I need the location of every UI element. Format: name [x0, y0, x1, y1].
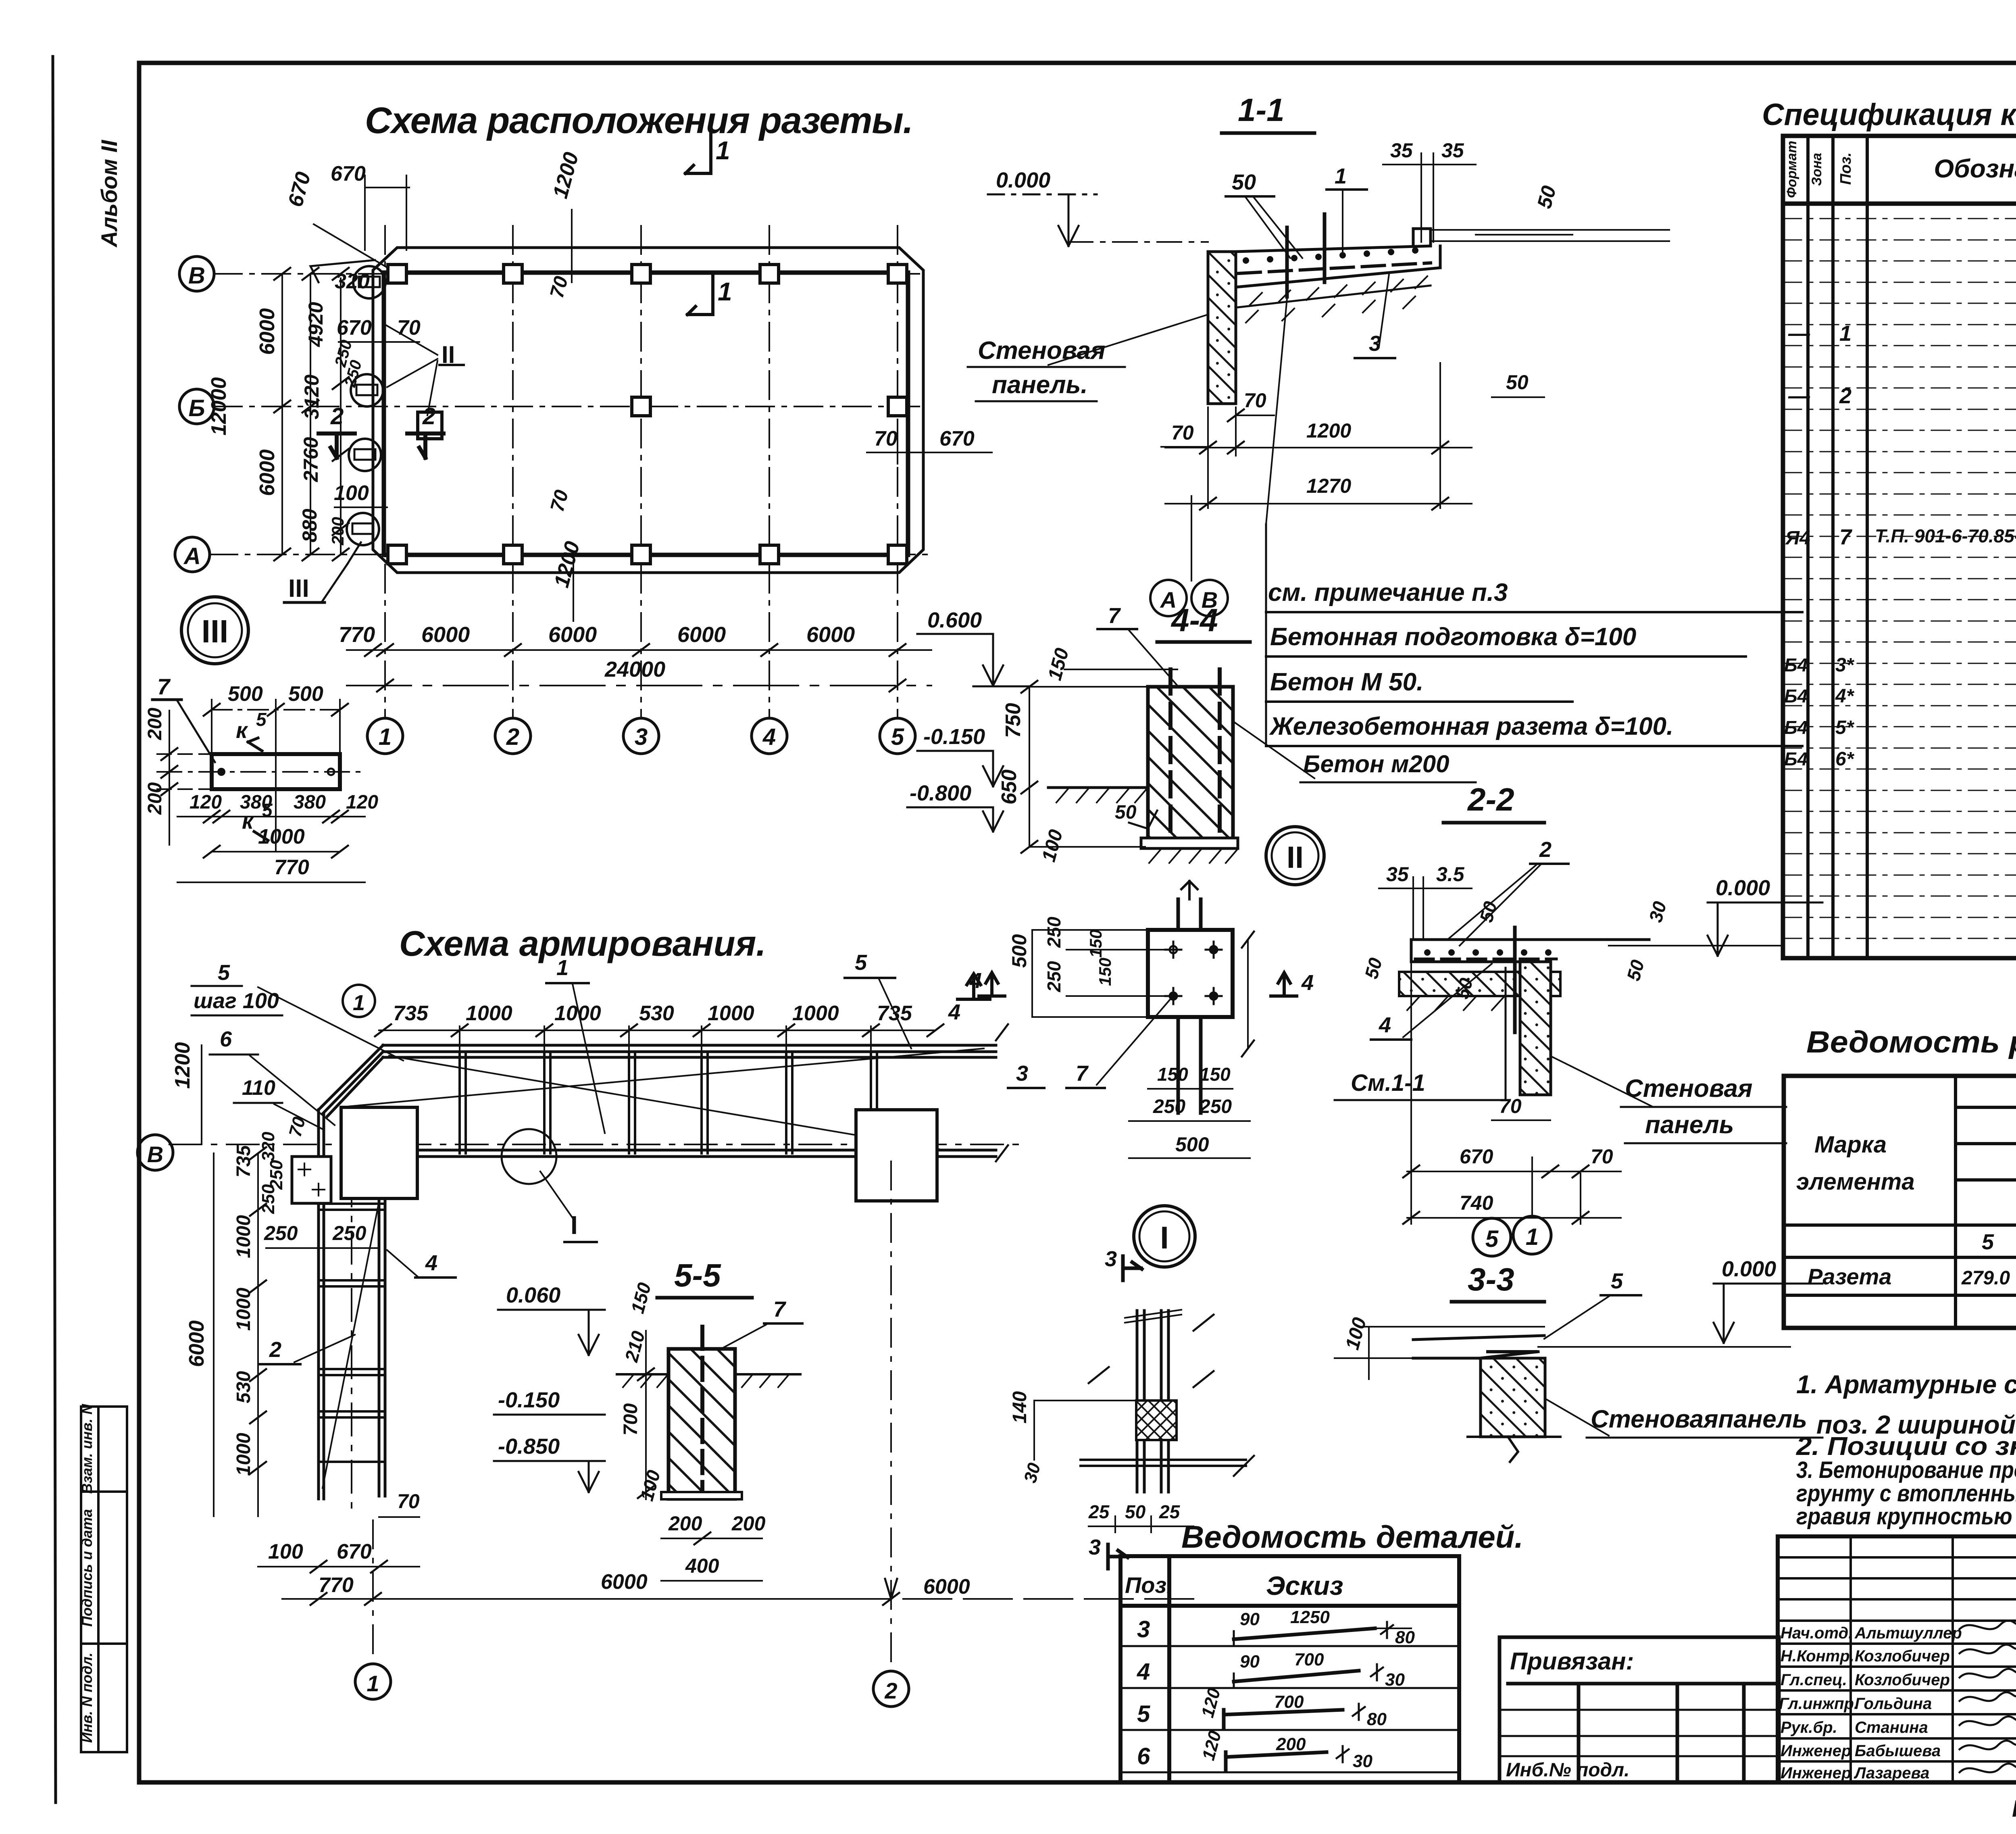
- beam axis dashed: [169, 1144, 1024, 1145]
- svg-text:6*: 6*: [1835, 748, 1855, 770]
- svg-text:Обозначение: Обозначение: [1934, 154, 2016, 183]
- svg-text:500: 500: [228, 682, 263, 706]
- svg-text:Эскиз: Эскиз: [1266, 1571, 1343, 1601]
- svg-text:Привязан:: Привязан:: [1510, 1648, 1634, 1675]
- svg-text:Бетон м200: Бетон м200: [1303, 750, 1449, 777]
- svg-text:6000: 6000: [185, 1320, 208, 1367]
- svg-text:-0.800: -0.800: [910, 781, 971, 805]
- svg-text:Поз.: Поз.: [1125, 1572, 1173, 1598]
- svg-text:см. примечание п.3: см. примечание п.3: [1268, 579, 1508, 606]
- binding edge line: [53, 56, 56, 1803]
- grid axis 5: [897, 226, 898, 718]
- corner plate right: [856, 1110, 937, 1201]
- svg-text:5: 5: [1485, 1226, 1499, 1252]
- axis circles А В of section: [1191, 496, 1192, 581]
- grid axis 2: [512, 226, 514, 718]
- svg-text:735: 735: [233, 1145, 254, 1178]
- vertical bars through slab: [1285, 227, 1289, 297]
- svg-text:3: 3: [635, 724, 648, 750]
- horizontal line through: [1081, 1459, 1246, 1461]
- svg-text:I: I: [1160, 1220, 1169, 1255]
- svg-text:2: 2: [422, 403, 435, 429]
- svg-text:Козлобичер: Козлобичер: [1855, 1671, 1950, 1689]
- break mark right of beam: [996, 1024, 1008, 1161]
- axis circle 1 top: [343, 985, 375, 1017]
- signatures: [1960, 1621, 2016, 1772]
- svg-text:4: 4: [762, 724, 776, 750]
- svg-text:70: 70: [1499, 1095, 1522, 1117]
- svg-text:24000: 24000: [604, 657, 665, 681]
- svg-text:2: 2: [884, 1678, 897, 1703]
- svg-text:770: 770: [274, 856, 309, 879]
- svg-text:III: III: [202, 613, 229, 649]
- svg-text:Б4: Б4: [1784, 654, 1808, 675]
- grid axis 3: [640, 226, 642, 718]
- подготовка strip under slab: [1238, 286, 1431, 307]
- top rebar dots 2-2: [1424, 949, 1552, 956]
- detail circle on beam: [502, 1129, 556, 1184]
- svg-text:4: 4: [1379, 1013, 1391, 1037]
- svg-text:Ведомость расхода стали на: Ведомость расхода стали на элемент кг.: [1806, 1025, 2016, 1059]
- grid axis Б: [214, 406, 927, 407]
- svg-text:279.0: 279.0: [1961, 1267, 2010, 1289]
- svg-text:1: 1: [556, 956, 569, 980]
- wall panel right (vertical, hatched): [1520, 962, 1551, 1095]
- break marks right of plate: [1242, 932, 1254, 1057]
- grid axis А: [209, 554, 927, 555]
- plate II rect: [1148, 930, 1233, 1017]
- svg-text:5*: 5*: [1835, 717, 1855, 738]
- small bolt plate left: [292, 1157, 331, 1203]
- detail circle III: [181, 597, 248, 664]
- svg-text:6000: 6000: [806, 623, 855, 647]
- svg-text:110: 110: [242, 1076, 275, 1100]
- pins above plate: [1178, 881, 1201, 930]
- svg-text:35: 35: [1390, 139, 1413, 162]
- svg-text:25: 25: [1159, 1501, 1181, 1522]
- svg-text:Н.Контр.: Н.Контр.: [1781, 1647, 1854, 1665]
- svg-text:4: 4: [1137, 1659, 1150, 1685]
- svg-text:30: 30: [1385, 1670, 1405, 1690]
- columns top row: [388, 265, 907, 283]
- svg-text:250: 250: [332, 1222, 367, 1244]
- svg-text:1: 1: [716, 136, 730, 165]
- beam posts (verticals): [460, 1052, 877, 1153]
- svg-text:70: 70: [397, 316, 421, 340]
- svg-text:1000: 1000: [708, 1002, 754, 1025]
- подготовка strip 2-2: [1399, 972, 1560, 996]
- slab dashed rebar 1-1: [1238, 263, 1431, 273]
- svg-text:1000: 1000: [466, 1002, 512, 1025]
- svg-text:1200: 1200: [171, 1042, 194, 1089]
- grid axis В: [214, 273, 927, 275]
- svg-text:7: 7: [773, 1297, 787, 1321]
- leader from notes to slab: [1265, 524, 1267, 746]
- spec row separator lines: [1783, 219, 2016, 938]
- svg-text:50: 50: [1125, 1501, 1146, 1522]
- svg-text:7: 7: [1076, 1061, 1089, 1086]
- svg-text:150: 150: [1095, 958, 1114, 986]
- svg-text:0.000: 0.000: [1716, 876, 1770, 900]
- columns middle row: [418, 397, 907, 439]
- svg-text:Б4: Б4: [1784, 686, 1808, 707]
- svg-text:Инженер: Инженер: [1781, 1742, 1851, 1760]
- svg-text:Спецификация к схеме распо: Спецификация к схеме расположения разеты…: [1762, 98, 2016, 132]
- svg-text:50: 50: [1232, 170, 1256, 194]
- svg-text:Марка: Марка: [1814, 1132, 1887, 1158]
- svg-text:-0.150: -0.150: [498, 1388, 560, 1412]
- columns bottom row: [388, 545, 907, 564]
- axis circle В: [179, 256, 214, 291]
- svg-text:35: 35: [1386, 863, 1409, 886]
- svg-text:0.000: 0.000: [996, 168, 1050, 192]
- svg-text:670: 670: [331, 162, 366, 185]
- svg-text:1: 1: [1839, 321, 1851, 346]
- svg-text:Гольдина: Гольдина: [1855, 1695, 1932, 1713]
- svg-text:5: 5: [855, 950, 867, 975]
- detail circles 5 1: [1473, 1218, 1511, 1256]
- steel table frame: [1784, 1076, 2016, 1328]
- svg-text:150: 150: [1086, 930, 1105, 958]
- svg-text:5: 5: [256, 709, 267, 730]
- svg-text:4920: 4920: [304, 302, 327, 347]
- svg-text:250: 250: [1199, 1096, 1232, 1117]
- svg-text:150: 150: [1157, 1064, 1188, 1085]
- svg-text:Я4: Я4: [1785, 527, 1810, 549]
- svg-text:90: 90: [1240, 1652, 1260, 1671]
- svg-text:2. Позиции со знаком * см.: 2. Позиции со знаком * см. Ведомость дет…: [1796, 1432, 2016, 1461]
- svg-text:1-1: 1-1: [1238, 92, 1285, 128]
- beam strip horizontal: [383, 1045, 996, 1157]
- svg-text:70: 70: [1171, 421, 1194, 444]
- margin stamp strip: [81, 1407, 127, 1752]
- svg-text:6000: 6000: [548, 623, 597, 647]
- wall 3-3 (hatched with blobs): [1481, 1358, 1545, 1437]
- personnel rows: [1779, 1624, 1962, 1782]
- corner diagonal to vertical strip: [319, 1045, 383, 1116]
- anchors below plate: [1178, 1017, 1201, 1113]
- slab 3-3: [1413, 1336, 1544, 1358]
- svg-text:700: 700: [1274, 1692, 1304, 1712]
- details table frame: [1120, 1556, 1459, 1782]
- svg-text:3.5: 3.5: [1436, 863, 1465, 886]
- footing of 4-4: [1141, 838, 1238, 848]
- svg-text:12000: 12000: [207, 377, 231, 436]
- svg-text:7: 7: [1839, 525, 1853, 549]
- diagonal leader in vertical strip: [323, 1202, 379, 1488]
- axis circle 2 bottom: [890, 1161, 892, 1669]
- axis circle А: [175, 537, 210, 572]
- svg-text:Рук.бр.: Рук.бр.: [1781, 1719, 1837, 1736]
- svg-text:6000: 6000: [677, 623, 726, 647]
- svg-text:См.1-1: См.1-1: [1351, 1070, 1425, 1096]
- svg-text:3: 3: [1137, 1616, 1150, 1642]
- break marks: [1125, 1310, 1181, 1323]
- svg-text:Станина: Станина: [1855, 1719, 1928, 1736]
- svg-text:4: 4: [948, 1000, 960, 1024]
- svg-text:140: 140: [1009, 1391, 1031, 1423]
- svg-text:-0.850: -0.850: [498, 1434, 560, 1459]
- svg-text:7: 7: [1108, 604, 1121, 628]
- svg-text:Б: Б: [188, 395, 205, 421]
- svg-text:80: 80: [1367, 1709, 1387, 1729]
- slab section drawing 1-1: [1208, 229, 1440, 287]
- svg-text:700: 700: [1294, 1650, 1324, 1669]
- svg-text:3: 3: [1105, 1247, 1117, 1271]
- svg-text:250: 250: [1153, 1096, 1185, 1117]
- rebar dashed bars: [1168, 669, 1173, 837]
- vertical bars of detail I: [1137, 1311, 1168, 1492]
- svg-text:В: В: [147, 1142, 163, 1167]
- svg-text:3. Бетонирование производить: 3. Бетонирование производить по умеренно…: [1796, 1457, 2016, 1483]
- svg-text:—: —: [1788, 384, 1810, 408]
- svg-text:770: 770: [319, 1573, 354, 1597]
- svg-text:650: 650: [998, 769, 1021, 804]
- svg-text:Бетон М 50.: Бетон М 50.: [1270, 668, 1423, 696]
- svg-text:2: 2: [1839, 384, 1851, 408]
- svg-text:5: 5: [1137, 1701, 1150, 1727]
- svg-text:0.600: 0.600: [927, 608, 982, 632]
- axis circle 1 bottom: [372, 1520, 374, 1663]
- svg-text:250: 250: [258, 1184, 278, 1214]
- axis bottom circles 1-5: [367, 718, 915, 754]
- svg-text:2: 2: [269, 1338, 281, 1362]
- svg-text:В: В: [188, 263, 205, 289]
- svg-text:250: 250: [1043, 961, 1064, 992]
- svg-text:3: 3: [1089, 1535, 1101, 1559]
- svg-text:элемента: элемента: [1796, 1169, 1915, 1195]
- svg-text:Бабышева: Бабышева: [1855, 1742, 1941, 1760]
- svg-text:1200: 1200: [1306, 419, 1351, 442]
- svg-text:200: 200: [144, 782, 166, 815]
- svg-text:Альбом II: Альбом II: [96, 140, 122, 248]
- long diagonals: [343, 1048, 984, 1107]
- svg-text:1: 1: [1335, 164, 1347, 188]
- svg-text:панель.: панель.: [992, 371, 1088, 399]
- svg-text:320: 320: [258, 1132, 278, 1161]
- svg-text:II: II: [1287, 840, 1304, 875]
- svg-text:Стеноваяпанель: Стеноваяпанель: [1591, 1405, 1807, 1433]
- svg-text:380: 380: [294, 792, 326, 813]
- svg-text:100: 100: [334, 481, 369, 505]
- svg-text:Железобетонная разета δ=100.: Железобетонная разета δ=100.: [1269, 713, 1673, 740]
- svg-text:1000: 1000: [258, 825, 305, 848]
- svg-text:2: 2: [1539, 838, 1552, 862]
- svg-text:70: 70: [1591, 1145, 1613, 1168]
- svg-text:500: 500: [1175, 1133, 1209, 1156]
- svg-text:Подпись и дата: Подпись и дата: [79, 1509, 95, 1627]
- small plate detail К5 (left): [212, 754, 340, 789]
- svg-text:Копировал: Доценко.: Копировал: Доценко.: [2012, 1796, 2016, 1822]
- svg-text:1000: 1000: [233, 1215, 254, 1258]
- svg-text:5: 5: [1611, 1269, 1623, 1293]
- svg-text:0.000: 0.000: [1722, 1257, 1776, 1281]
- svg-text:1: 1: [1526, 1224, 1539, 1250]
- embed detail ovals on axis 1: [347, 266, 385, 545]
- svg-text:Схема армирования.: Схема армирования.: [399, 923, 766, 963]
- svg-text:1: 1: [379, 724, 392, 750]
- svg-text:3*: 3*: [1835, 654, 1855, 676]
- svg-text:250: 250: [1043, 917, 1064, 948]
- svg-text:Разета: Разета: [1808, 1264, 1891, 1289]
- svg-text:5: 5: [1982, 1230, 1994, 1254]
- svg-text:4*: 4*: [1835, 686, 1855, 707]
- left dim chain 6000/6000: [281, 274, 283, 554]
- svg-text:6: 6: [220, 1027, 232, 1051]
- svg-text:735: 735: [393, 1002, 429, 1025]
- svg-text:Инв. N подл.: Инв. N подл.: [79, 1653, 95, 1743]
- svg-text:Инженер: Инженер: [1781, 1764, 1851, 1782]
- section mark 4 up: [958, 974, 990, 999]
- svg-text:—: —: [1788, 321, 1810, 346]
- plan slab outline: [384, 273, 908, 555]
- svg-text:120: 120: [346, 792, 378, 813]
- svg-text:грунту с втопленным в него: грунту с втопленным в него на глубину не…: [1796, 1480, 2016, 1507]
- svg-text:200: 200: [731, 1512, 766, 1535]
- grid axis 1 (vertical dash-dot): [384, 226, 386, 718]
- svg-text:380: 380: [240, 792, 272, 813]
- svg-text:5-5: 5-5: [674, 1257, 721, 1293]
- svg-text:670: 670: [1460, 1145, 1493, 1168]
- detail circle II: [1266, 827, 1324, 885]
- svg-text:Взам. инв. N: Взам. инв. N: [79, 1404, 95, 1494]
- corner plate big left: [341, 1107, 417, 1198]
- svg-text:90: 90: [1240, 1609, 1260, 1629]
- axis circle В armir: [137, 1135, 173, 1170]
- svg-text:200: 200: [144, 708, 166, 740]
- top rebar dots 1-1: [1243, 247, 1418, 264]
- svg-text:6000: 6000: [923, 1575, 970, 1598]
- svg-text:880: 880: [298, 509, 321, 542]
- floor level thin lines right: [1431, 229, 1669, 231]
- svg-text:1250: 1250: [1290, 1607, 1330, 1627]
- ladder rungs: [319, 1204, 385, 1462]
- ground line 5-5: [617, 1373, 669, 1375]
- section mark K1 top: [685, 133, 711, 173]
- svg-text:100: 100: [268, 1540, 303, 1563]
- svg-text:Формат: Формат: [1784, 141, 1799, 198]
- bolts in plate: [1165, 942, 1222, 1004]
- vertical bar: [1513, 927, 1517, 1032]
- svg-text:Лазарева: Лазарева: [1854, 1764, 1929, 1782]
- svg-text:3-3: 3-3: [1468, 1261, 1514, 1297]
- svg-text:-0.150: -0.150: [923, 725, 985, 749]
- dim ticks on left chains: [274, 268, 349, 561]
- center rebar dashed: [700, 1327, 704, 1498]
- svg-text:50: 50: [1115, 802, 1137, 823]
- svg-text:гравия крупностью 40÷60мм п: гравия крупностью 40÷60мм при γск = 1.65…: [1796, 1503, 2016, 1530]
- svg-text:Козлобичер: Козлобичер: [1855, 1647, 1950, 1665]
- svg-text:750: 750: [1002, 703, 1025, 738]
- svg-text:панель: панель: [1645, 1111, 1734, 1139]
- svg-text:30: 30: [1353, 1751, 1372, 1771]
- svg-text:740: 740: [1460, 1192, 1493, 1214]
- svg-text:1000: 1000: [233, 1288, 254, 1331]
- svg-text:7: 7: [157, 674, 171, 699]
- svg-text:70: 70: [874, 427, 898, 450]
- svg-text:Альтшуллер: Альтшуллер: [1854, 1624, 1962, 1642]
- svg-text:4-4: 4-4: [1170, 602, 1218, 638]
- svg-text:Схема расположения разеты.: Схема расположения разеты.: [365, 100, 913, 141]
- svg-text:1270: 1270: [1306, 475, 1351, 497]
- svg-text:2: 2: [330, 403, 344, 429]
- svg-text:2760: 2760: [300, 437, 322, 482]
- svg-text:1000: 1000: [792, 1002, 839, 1025]
- svg-text:Стеновая: Стеновая: [978, 337, 1106, 365]
- bottom dim chain row1: [347, 649, 931, 651]
- svg-text:70: 70: [397, 1490, 420, 1513]
- svg-text:670: 670: [337, 316, 372, 340]
- svg-text:770: 770: [339, 623, 375, 647]
- svg-text:50: 50: [1506, 371, 1529, 394]
- svg-text:530: 530: [639, 1002, 674, 1025]
- vertical strip of armir: [319, 1110, 385, 1499]
- footing 5-5: [661, 1492, 742, 1499]
- svg-text:2-2: 2-2: [1467, 782, 1514, 817]
- svg-text:Б4: Б4: [1784, 717, 1808, 738]
- svg-text:5: 5: [218, 961, 230, 985]
- svg-text:Зона: Зона: [1809, 153, 1824, 186]
- svg-text:1. Арматурные сетки поз: 1. Арматурные сетки поз.1 резать шириной…: [1796, 1370, 2016, 1399]
- bottom dim chain 24000: [347, 685, 931, 686]
- svg-text:500: 500: [288, 682, 323, 706]
- svg-text:0.060: 0.060: [506, 1283, 560, 1307]
- svg-text:2: 2: [506, 724, 519, 750]
- svg-text:25: 25: [1088, 1501, 1110, 1522]
- svg-text:3: 3: [1016, 1061, 1028, 1086]
- svg-text:4: 4: [1301, 971, 1314, 995]
- svg-text:700: 700: [620, 1403, 641, 1436]
- axis circle Б: [179, 389, 214, 424]
- section mark K1 inner: [687, 274, 713, 315]
- svg-text:Ведомость деталей.: Ведомость деталей.: [1181, 1519, 1523, 1555]
- svg-text:6000: 6000: [601, 1570, 648, 1594]
- svg-text:А: А: [183, 543, 201, 569]
- grid axis 4: [768, 226, 770, 718]
- svg-text:I: I: [571, 1211, 578, 1240]
- svg-text:Бетонная подготовка δ=100: Бетонная подготовка δ=100: [1270, 623, 1636, 651]
- svg-text:6000: 6000: [256, 308, 279, 355]
- svg-text:Гл.спец.: Гл.спец.: [1781, 1671, 1847, 1689]
- svg-text:III: III: [288, 575, 309, 602]
- svg-text:1: 1: [353, 991, 365, 1015]
- spec table frame: [1783, 136, 2016, 958]
- svg-text:Инб.№ подл.: Инб.№ подл.: [1506, 1759, 1629, 1781]
- detail circle I: [1134, 1206, 1195, 1267]
- svg-text:400: 400: [685, 1555, 719, 1577]
- svg-text:120: 120: [190, 792, 222, 813]
- svg-text:6000: 6000: [421, 623, 470, 647]
- column 5-5: [669, 1349, 735, 1499]
- svg-text:670: 670: [337, 1540, 372, 1563]
- svg-text:Т.П. 901-6-70.85-КЖИ.1.10.01.0: Т.П. 901-6-70.85-КЖИ.1.10.01.02: [1875, 525, 2016, 546]
- plan outer pit outline (chamfered): [373, 248, 923, 573]
- svg-text:5: 5: [891, 724, 904, 750]
- svg-text:1: 1: [718, 277, 732, 306]
- svg-text:6: 6: [1137, 1743, 1150, 1769]
- svg-text:35: 35: [1441, 139, 1464, 162]
- svg-text:к: к: [236, 717, 248, 743]
- svg-text:1000: 1000: [233, 1433, 254, 1476]
- ground line left of 4-4: [1048, 786, 1148, 789]
- svg-text:Стеновая: Стеновая: [1625, 1075, 1753, 1102]
- svg-text:Б4: Б4: [1784, 748, 1808, 769]
- slab 2-2: [1411, 940, 1649, 962]
- svg-text:Гл.инжпр.: Гл.инжпр.: [1779, 1695, 1858, 1713]
- svg-text:200: 200: [1276, 1734, 1306, 1754]
- svg-text:Нач.отд.: Нач.отд.: [1781, 1624, 1853, 1642]
- svg-text:500: 500: [1008, 934, 1031, 968]
